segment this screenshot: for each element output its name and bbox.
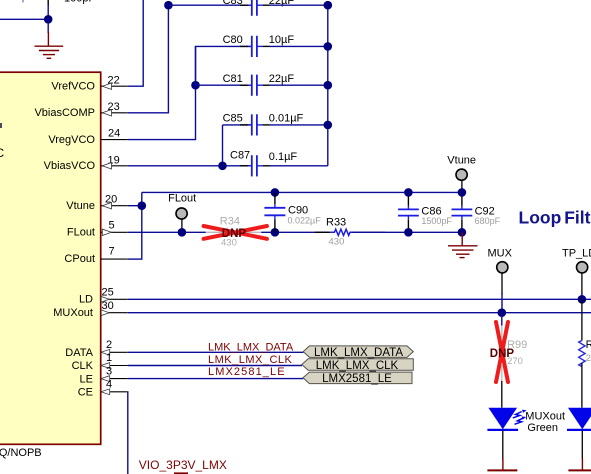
svg-text:LMK_LMX_DATA: LMK_LMX_DATA	[208, 342, 294, 354]
pin 24 (VregVCO)	[101, 128, 128, 140]
capacitor C92 680pF	[452, 192, 501, 232]
LED D1 MUXout Green	[487, 408, 518, 460]
svg-text:VregVCO: VregVCO	[48, 134, 95, 146]
wire loop top rail	[142, 191, 462, 193]
svg-text:27: 27	[586, 353, 591, 364]
svg-text:VrefVCO: VrefVCO	[51, 80, 95, 92]
wire CLK net	[128, 365, 302, 367]
wire pin23 to riser	[128, 5, 169, 113]
svg-text:LMK_LMX_DATA: LMK_LMX_DATA	[314, 347, 403, 359]
net tag LMK_LMX_DATA	[303, 346, 413, 359]
pin 25 (LD)	[101, 286, 128, 302]
capacitor C79 bottom lead	[47, 0, 49, 6]
test point TP_LD	[577, 262, 588, 300]
wire loop vertical pin20/pin7	[141, 192, 143, 259]
svg-text:LD: LD	[79, 293, 93, 305]
wire R99 to LED D1	[501, 363, 503, 381]
svg-text:VIO_3P3V_LMX: VIO_3P3V_LMX	[139, 458, 227, 472]
svg-text:DATA: DATA	[65, 347, 93, 359]
svg-text:MUXout: MUXout	[525, 410, 565, 422]
svg-text:430: 430	[329, 236, 345, 247]
pin 7 (CPout)	[101, 246, 128, 260]
node junction C85 riser on pin19 wire	[218, 162, 227, 171]
wire right bus vertical	[327, 5, 329, 166]
svg-text:MUXout: MUXout	[53, 307, 93, 319]
svg-text:Green: Green	[527, 422, 558, 434]
node junction C86 bottom	[404, 228, 413, 237]
svg-text:24: 24	[108, 128, 120, 140]
svg-text:C83: C83	[223, 0, 243, 7]
node junction MUX tp on MUXout wire	[498, 308, 507, 317]
resistor R33 430	[315, 217, 385, 248]
left-edge clipped text fragment "o"	[0, 123, 2, 128]
pin 4 (CE)	[101, 379, 128, 395]
capacitor C90 0.022uF	[264, 192, 321, 232]
node junction top-left	[44, 15, 53, 24]
resistor R100 (right edge, clipped)	[579, 339, 591, 366]
pin 5 (FLout)	[101, 220, 128, 236]
svg-text:100pF: 100pF	[64, 0, 95, 5]
ground GND2 (loop filter)	[448, 232, 478, 257]
resistor R99 red X (do not populate)	[496, 322, 508, 382]
node junction bus C80	[324, 42, 333, 51]
wire pin19 / C87 row	[128, 165, 251, 167]
wire pin5 row mid segment	[261, 231, 329, 233]
capacitor C81 22uF	[196, 73, 328, 96]
svg-text:CPout: CPout	[64, 253, 95, 265]
svg-text:VbiasVCO: VbiasVCO	[44, 160, 96, 172]
test point MUX	[497, 262, 508, 313]
svg-text:Vtune: Vtune	[447, 154, 476, 166]
svg-text:DNP: DNP	[490, 348, 515, 360]
wire pin7 to loop vertical	[128, 258, 143, 260]
LED D2 (clipped at right)	[567, 408, 591, 460]
node junction C92 bottom / ground	[458, 228, 467, 237]
pin 1 (CLK)	[101, 352, 128, 368]
resistor R99 (DNP) body	[499, 339, 528, 367]
resistor R34 red X (do not populate)	[204, 226, 267, 239]
svg-text:DNP: DNP	[222, 228, 247, 240]
svg-text:C80: C80	[223, 34, 243, 46]
capacitor C86 1500pF	[398, 192, 452, 232]
svg-text:MUX: MUX	[488, 247, 513, 259]
svg-text:R10: R10	[586, 339, 591, 351]
svg-text:5: 5	[109, 220, 115, 232]
svg-text:LoopFilter: LoopFilter	[519, 208, 591, 228]
svg-text:1500pF: 1500pF	[421, 216, 452, 226]
svg-text:C87: C87	[230, 150, 250, 162]
wire CE to power rail	[127, 392, 129, 474]
node junction FLout tp	[178, 228, 187, 237]
power symbol fragment	[174, 472, 188, 474]
svg-text:CE: CE	[78, 387, 93, 399]
svg-text:R33: R33	[326, 217, 346, 229]
svg-text:CLK: CLK	[72, 360, 94, 372]
svg-text:VbiasCOMP: VbiasCOMP	[34, 107, 95, 119]
resistor R34 (DNP) body	[206, 216, 261, 249]
node junction pin23/C83 row	[164, 1, 173, 10]
wire pin5 row left segment	[128, 231, 206, 233]
wire top-left horizontal	[0, 18, 48, 20]
svg-text:FLout: FLout	[168, 193, 196, 205]
capacitor C80 10uF	[196, 34, 328, 85]
wire C85 drop riser	[222, 125, 224, 166]
ground GND1 (top left)	[35, 19, 64, 58]
svg-text:22µF: 22µF	[269, 73, 295, 85]
svg-text:0.1µF: 0.1µF	[269, 151, 298, 163]
wire TP_LD chain below LD	[581, 299, 583, 340]
svg-text:25: 25	[102, 286, 114, 298]
ground GND3 (under LED D1)	[487, 459, 517, 471]
svg-text:C85: C85	[223, 112, 243, 124]
net tag LMK_LMX_CLK	[302, 359, 414, 372]
wire fragment at top edge	[22, 0, 24, 2]
node junction C90 top	[271, 188, 280, 197]
capacitor C85 0.01uF	[223, 112, 328, 135]
svg-text:LMK_LMX_CLK: LMK_LMX_CLK	[316, 360, 399, 372]
svg-text:680pF: 680pF	[475, 216, 501, 226]
node junction bus C83	[324, 1, 333, 10]
svg-text:LE: LE	[80, 373, 93, 385]
wire MUXout net	[128, 312, 591, 314]
svg-text:C: C	[0, 146, 5, 160]
node junction C81 row / pin24 riser	[191, 81, 200, 90]
svg-text:Vtune: Vtune	[66, 200, 95, 212]
pin 23 (VbiasCOMP)	[101, 101, 128, 116]
node junction TP_LD on LD wire	[578, 295, 587, 304]
wire top-left vertical	[47, 5, 49, 19]
svg-text:0.022µF: 0.022µF	[288, 215, 322, 225]
wire LD net	[128, 298, 591, 300]
IC U1 LMX2581 symbol body	[0, 72, 101, 444]
wire pin22 to riser	[128, 0, 144, 86]
svg-text:FLout: FLout	[67, 227, 95, 239]
svg-text:0.01µF: 0.01µF	[269, 112, 304, 124]
pin 20 (Vtune)	[101, 194, 128, 209]
svg-text:C81: C81	[223, 73, 243, 85]
node junction Vtune/C92 top	[458, 188, 467, 197]
pin 22 (VrefVCO)	[101, 75, 128, 90]
svg-text:LMK_LMX_CLK: LMK_LMX_CLK	[208, 354, 293, 366]
svg-text:LMX2581_LE: LMX2581_LE	[208, 366, 286, 378]
wire pin5 row right segment	[352, 231, 462, 233]
svg-text:SQ/NOPB: SQ/NOPB	[0, 447, 42, 459]
wire DATA net	[128, 351, 304, 353]
wire pin24 to riser	[128, 46, 196, 139]
svg-text:R34: R34	[220, 216, 240, 228]
capacitor C87 0.1uF	[230, 150, 328, 177]
capacitor C83 (22uF, clipped top row)	[168, 0, 327, 16]
pin 30 (MUXout)	[101, 300, 128, 316]
ground GND4 (under LED D2)	[568, 459, 591, 471]
LED D1 emission arrows	[513, 412, 524, 425]
wire pin20 to loop-filter node	[128, 205, 142, 207]
net tag LMX2581_LE	[303, 372, 412, 385]
test point FLout	[176, 208, 187, 232]
wire R100 to LED D2	[581, 363, 583, 408]
wire MUX chain below MUXout	[501, 313, 503, 326]
svg-text:22µF: 22µF	[269, 0, 295, 7]
node junction C90 bottom	[271, 228, 280, 237]
svg-text:30: 30	[102, 300, 114, 312]
svg-text:LMX2581_LE: LMX2581_LE	[322, 373, 392, 385]
wire LE net	[128, 378, 304, 380]
svg-text:10µF: 10µF	[269, 34, 295, 46]
svg-text:7: 7	[109, 246, 115, 258]
node junction pin20	[138, 201, 147, 210]
pin 19 (VbiasVCO)	[101, 154, 128, 169]
pin 3 (LE)	[101, 365, 128, 381]
node junction bus C81	[324, 81, 333, 90]
test point Vtune	[456, 169, 467, 192]
node junction bus C85	[324, 121, 333, 130]
node junction C86 top	[404, 188, 413, 197]
pin 2 (DATA)	[101, 339, 128, 355]
svg-text:TP_LD: TP_LD	[562, 247, 591, 259]
